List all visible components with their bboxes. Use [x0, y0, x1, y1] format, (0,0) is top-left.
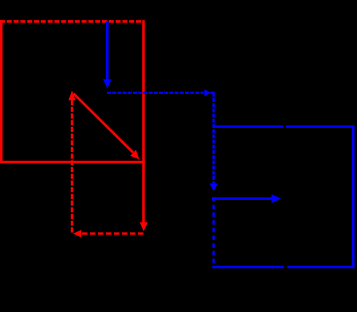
- red diagonal arrow: [74, 94, 134, 153]
- red rectangle bottom edge: [0, 161, 145, 164]
- blue rectangle bottom edge: [212, 266, 283, 269]
- red rectangle top edge (dashed): [0, 20, 144, 23]
- red solid down arrow from red rectangle corner: [142, 162, 145, 223]
- red rectangle right edge: [142, 20, 145, 162]
- blue rectangle top edge: [214, 125, 284, 128]
- red dashed vertical arrow up: [71, 100, 73, 234]
- blue dashed lower left edge of blue rectangle: [212, 197, 214, 267]
- blue dashed horizontal arrow to the right: [107, 92, 204, 94]
- red dashed horizontal arrow left: [81, 232, 144, 234]
- blue dashed corner down segment with arrow: [211, 92, 215, 94]
- blue vertical arrow into red box: [106, 21, 109, 80]
- blue rectangle right edge: [352, 125, 355, 268]
- blue horizontal arrow inside blue rectangle: [212, 197, 272, 200]
- red rectangle left edge: [0, 20, 3, 163]
